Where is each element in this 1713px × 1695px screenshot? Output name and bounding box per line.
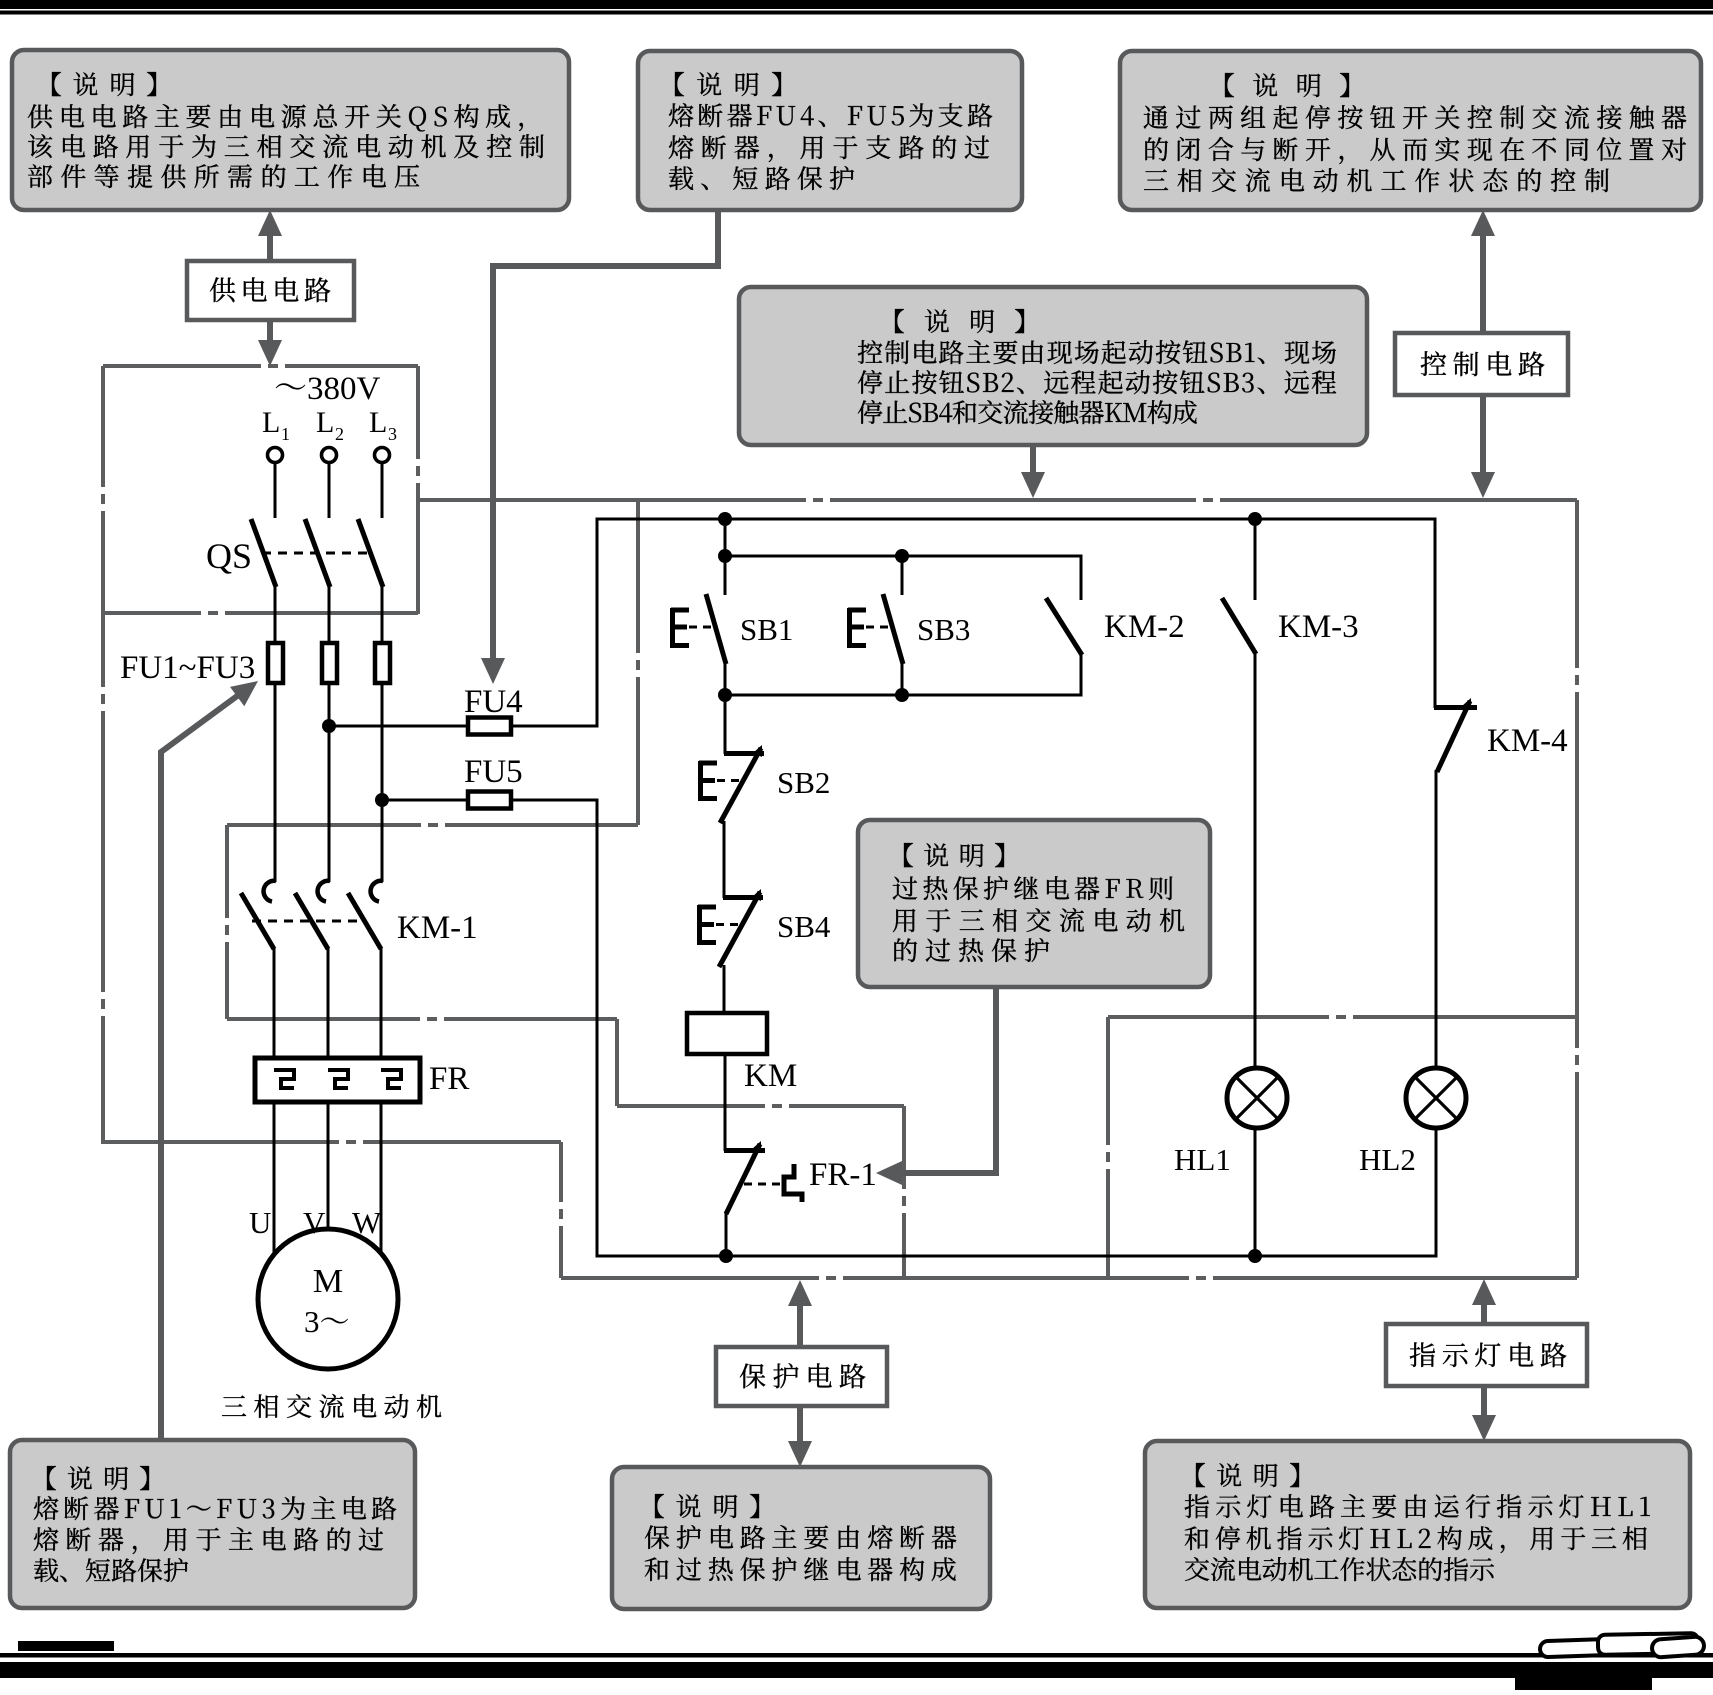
connector baohu label to note7 bbox=[797, 1406, 803, 1449]
wire KM-4 to HL2 bbox=[1435, 770, 1438, 1069]
control section top frame line bbox=[418, 498, 1577, 502]
wire SB2 to SB4 bbox=[723, 821, 726, 898]
switch QS pole2 blade bbox=[305, 519, 330, 587]
pushbutton SB1 operator bbox=[671, 608, 689, 648]
svg-text:HL1: HL1 bbox=[1174, 1142, 1231, 1177]
node parallel bus left bbox=[718, 549, 732, 563]
wire riser FU5 down to bottom control bus bbox=[596, 799, 599, 1258]
top thin rule bbox=[0, 11, 1713, 15]
wire SB1 bottom bbox=[724, 662, 727, 696]
wire FU4 to control bus riser bbox=[511, 725, 599, 728]
wire FR to motor U bbox=[273, 1102, 276, 1253]
pushbutton SB2 blade bbox=[720, 748, 761, 823]
pushbutton SB4 tick bbox=[723, 895, 763, 900]
motor M circle bbox=[258, 1229, 398, 1369]
protection section left frame line bbox=[615, 1019, 619, 1106]
note box B4 (control circuit description) bbox=[739, 287, 1367, 445]
pushbutton SB4 operator bbox=[698, 905, 716, 945]
frame line from control left to main circuit box bbox=[227, 823, 638, 827]
pushbutton SB3 link (dashed) bbox=[866, 626, 891, 629]
pushbutton SB2 tick bbox=[724, 751, 764, 756]
contactor KM-1 pole1 fixed-contact arc bbox=[264, 881, 276, 902]
node FU5 tap on L3 bbox=[375, 793, 389, 807]
lamp HL1 bbox=[1227, 1068, 1287, 1128]
power-supply section frame bottom bbox=[103, 611, 418, 615]
pushbutton SB2 link (dashed) bbox=[717, 779, 742, 782]
svg-text:KM-2: KM-2 bbox=[1104, 609, 1185, 645]
coil KM bbox=[687, 1013, 767, 1054]
connector zhishideng label to note8 bbox=[1481, 1386, 1487, 1423]
wire L3 to QS bbox=[381, 463, 384, 519]
bottom control bus bbox=[597, 1255, 1436, 1258]
main-circuit bottom frame line bbox=[101, 1140, 561, 1144]
svg-text:SB2: SB2 bbox=[777, 765, 830, 800]
wire SB3 top segment bbox=[901, 556, 904, 595]
switch QS pole3 blade bbox=[358, 519, 383, 587]
fuse FU3 bbox=[375, 643, 390, 683]
wire FU1 to KM-1 bbox=[274, 683, 277, 882]
wire KM-1 pole2 to FR bbox=[327, 947, 330, 1060]
top black banner bar bbox=[0, 0, 1713, 9]
pushbutton SB2 blade arrow tip bbox=[753, 745, 762, 757]
label box 供电电路 bbox=[187, 261, 354, 320]
label box 指示灯电路 bbox=[1386, 1324, 1587, 1386]
pushbutton SB2 operator bbox=[699, 761, 717, 801]
contactor aux KM-3 blade bbox=[1222, 598, 1256, 654]
pushbutton SB1 link (dashed) bbox=[689, 626, 714, 629]
switch QS pole1 blade bbox=[251, 519, 276, 587]
control section left partial frame line bbox=[636, 500, 640, 825]
note box B2 (FU4 FU5 description) bbox=[638, 51, 1022, 210]
wire tap to FU4 bbox=[329, 725, 470, 728]
note box B5 (FR description) bbox=[858, 820, 1210, 987]
wire SB4 to KM coil bbox=[723, 965, 726, 1014]
svg-text:QS: QS bbox=[206, 536, 252, 576]
svg-text:L: L bbox=[369, 406, 387, 439]
contactor KM-1 pole2 fixed-contact arc bbox=[318, 881, 330, 902]
wire tap to FU5 bbox=[382, 799, 470, 802]
connector kongzhi label to control frame bbox=[1480, 394, 1486, 480]
node SB3 top bbox=[895, 549, 909, 563]
fuse FU4 bbox=[468, 718, 511, 735]
contactor KM-1 pole2 blade bbox=[295, 893, 328, 949]
connector protection frame to baohu label bbox=[797, 1298, 803, 1348]
svg-text:SB3: SB3 bbox=[917, 612, 970, 647]
bottom right lower block bbox=[1515, 1678, 1652, 1690]
contact FR-1 heater symbol bbox=[784, 1164, 802, 1202]
svg-text:KM-4: KM-4 bbox=[1487, 723, 1568, 759]
connector note2 to FU4 bbox=[493, 210, 718, 666]
contact KM-4 blade arrow tip bbox=[1462, 698, 1471, 710]
wire KM-2 bottom bbox=[1080, 653, 1083, 697]
contact FR-1 blade bbox=[726, 1144, 760, 1214]
wire top bus to parallel bus bbox=[724, 519, 727, 556]
parallel branch top bus bbox=[725, 555, 1081, 558]
pushbutton SB4 blade arrow tip bbox=[752, 889, 761, 901]
svg-text:W: W bbox=[352, 1205, 382, 1240]
svg-text:FU5: FU5 bbox=[464, 754, 523, 790]
svg-text:FU1~FU3: FU1~FU3 bbox=[120, 650, 255, 686]
power-supply section frame left bbox=[101, 366, 105, 614]
svg-text:KM-3: KM-3 bbox=[1278, 609, 1359, 645]
power-supply section frame right bbox=[416, 366, 420, 614]
connector note6 to FU1-FU3 (bent arrow) bbox=[161, 688, 248, 1442]
svg-text:KM: KM bbox=[744, 1058, 797, 1094]
wire KM-3 to HL1 bbox=[1254, 652, 1257, 1069]
pushbutton SB3 blade bbox=[883, 594, 903, 664]
node L1 terminal bbox=[268, 448, 283, 463]
svg-text:V: V bbox=[303, 1205, 326, 1240]
top control bus bbox=[597, 518, 1436, 521]
contactor aux KM-2 blade bbox=[1046, 598, 1082, 655]
note box B1 (power supply description) bbox=[12, 50, 569, 210]
thermal relay FR heater element bbox=[328, 1070, 348, 1088]
svg-text:交流电动机工作状态的指示: 交流电动机工作状态的指示 bbox=[1184, 1550, 1495, 1587]
connector note1 to gongdian label bbox=[267, 228, 273, 262]
node L3 terminal bbox=[375, 448, 390, 463]
wire KM-2 top bbox=[1080, 555, 1083, 601]
wire FR-1 to bottom bus bbox=[725, 1212, 728, 1257]
svg-text:载、短路保护: 载、短路保护 bbox=[33, 1551, 189, 1588]
label box 控制电路 bbox=[1395, 333, 1568, 395]
wire HL1 to bottom bus bbox=[1254, 1128, 1257, 1256]
contact KM-4 blade bbox=[1437, 701, 1470, 772]
svg-text:KM-1: KM-1 bbox=[397, 910, 478, 946]
label box 保护电路 bbox=[716, 1347, 887, 1406]
wire FR to motor V bbox=[327, 1102, 330, 1229]
wire KM-3 top bbox=[1254, 519, 1257, 600]
note box B7 (protection description) bbox=[612, 1467, 990, 1609]
indicator section top frame line bbox=[1108, 1015, 1577, 1019]
lamp HL2 bbox=[1406, 1068, 1466, 1128]
wire KM-1 pole1 to FR bbox=[273, 947, 276, 1060]
svg-text:FU4: FU4 bbox=[464, 684, 523, 720]
contact FR-1 tick bbox=[724, 1148, 765, 1153]
wire QS pole2 to FU2 bbox=[328, 585, 331, 645]
wire KM coil to FR-1 bbox=[724, 1054, 727, 1151]
svg-text:指示灯电路: 指示灯电路 bbox=[1409, 1334, 1567, 1373]
bottom thick black bar bbox=[0, 1662, 1713, 1678]
node L2 terminal bbox=[322, 448, 337, 463]
svg-text:L: L bbox=[262, 406, 280, 439]
node FU4 tap on L2 bbox=[322, 719, 336, 733]
connector indicator frame to zhishideng label bbox=[1481, 1297, 1487, 1325]
svg-text:SB4: SB4 bbox=[777, 909, 831, 944]
parallel branch bottom bus bbox=[725, 694, 1081, 697]
wire top bus corner down to KM-4 bbox=[1434, 518, 1437, 709]
contact FR-1 blade arrow tip bbox=[752, 1141, 761, 1153]
fuse FU1 bbox=[268, 643, 283, 683]
control section right frame line bbox=[1575, 500, 1579, 1278]
protection section top frame line bbox=[617, 1104, 904, 1108]
wire FU3 to KM-1 bbox=[381, 683, 384, 882]
svg-text:的过热保护: 的过热保护 bbox=[892, 931, 1050, 968]
wire riser FU4 up to top control bus bbox=[596, 518, 599, 728]
contactor KM-1 pole1 blade bbox=[241, 893, 274, 949]
contactor KM-1 linkage (dashed) bbox=[252, 920, 360, 923]
svg-text:FR: FR bbox=[429, 1061, 469, 1097]
wire HL2 to bottom bus bbox=[1435, 1128, 1438, 1258]
wire SB3 bottom bbox=[901, 662, 904, 696]
fuse FU5 bbox=[468, 792, 511, 809]
wire KM-1 pole3 to FR bbox=[380, 947, 383, 1060]
bottom small black tab bbox=[18, 1641, 114, 1651]
svg-text:M: M bbox=[313, 1263, 343, 1300]
decorative pill doodles bottom right bbox=[1540, 1633, 1705, 1658]
pushbutton SB4 blade bbox=[719, 892, 760, 967]
pushbutton SB3 operator bbox=[848, 608, 866, 648]
thermal relay FR heater element bbox=[274, 1070, 294, 1088]
switch QS linkage (dashed) bbox=[262, 552, 370, 555]
svg-text:HL2: HL2 bbox=[1359, 1142, 1416, 1177]
connector note5 to FR-1 bbox=[892, 987, 996, 1173]
fuse FU2 bbox=[322, 643, 337, 683]
svg-text:FR-1: FR-1 bbox=[809, 1157, 877, 1193]
main-circuit left frame line bbox=[101, 614, 105, 1142]
wire QS pole1 to FU1 bbox=[274, 585, 277, 645]
svg-text:停止SB4和交流接触器KM构成: 停止SB4和交流接触器KM构成 bbox=[857, 393, 1198, 430]
connector note4 to control frame bbox=[1030, 445, 1036, 480]
thermal relay FR heater element bbox=[381, 1070, 401, 1088]
svg-text:SB1: SB1 bbox=[740, 612, 793, 647]
frame line down to protection bottom bbox=[559, 1142, 563, 1278]
wire L1 to QS bbox=[274, 463, 277, 519]
node SB1 branch on top bus bbox=[718, 512, 732, 526]
wire SB1 node to SB2 bbox=[724, 695, 727, 754]
svg-text:2: 2 bbox=[335, 424, 344, 444]
bottom thin rule bbox=[0, 1653, 1713, 1658]
connector note3 to kongzhi label bbox=[1480, 228, 1486, 334]
note box B3 (two-group buttons description) bbox=[1120, 51, 1701, 210]
wire QS pole3 to FU3 bbox=[381, 585, 384, 645]
svg-text:L: L bbox=[316, 406, 334, 439]
bottom frame line of control/protection/indicator sections bbox=[561, 1276, 1577, 1280]
svg-text:1: 1 bbox=[281, 424, 290, 444]
contact FR-1 link (dashed) bbox=[744, 1183, 783, 1186]
node SB3 bottom bbox=[895, 688, 909, 702]
wire FR to motor W bbox=[380, 1102, 383, 1254]
node HL1 on bottom bus bbox=[1248, 1249, 1262, 1263]
KM-1 section bottom frame line bbox=[227, 1017, 617, 1021]
connector gongdian label to power box bbox=[267, 320, 273, 348]
pushbutton SB1 blade bbox=[706, 594, 726, 664]
contactor KM-1 pole3 fixed-contact arc bbox=[371, 881, 383, 902]
wire FU5 to left control riser bbox=[511, 799, 599, 802]
note box B6 (FU1-FU3 description) bbox=[10, 1440, 415, 1608]
wire FU2 to KM-1 bbox=[328, 683, 331, 882]
note box B8 (indicator description) bbox=[1145, 1441, 1690, 1608]
KM-1 section left frame line bbox=[225, 825, 229, 1019]
contactor KM-1 pole3 blade bbox=[348, 893, 381, 949]
thermal relay FR box bbox=[255, 1058, 420, 1102]
protection section right frame line bbox=[902, 1106, 906, 1278]
svg-text:3: 3 bbox=[388, 424, 397, 444]
node FR-1 on bottom bus bbox=[719, 1249, 733, 1263]
node SB1 bottom bbox=[718, 688, 732, 702]
svg-text:U: U bbox=[249, 1205, 271, 1240]
wire L2 to QS bbox=[328, 463, 331, 519]
wire SB1 top bbox=[724, 556, 727, 595]
power-supply section frame top (dash-dot) bbox=[103, 364, 418, 368]
contact KM-4 tick bbox=[1434, 705, 1477, 710]
pushbutton SB4 link (dashed) bbox=[716, 923, 741, 926]
node KM-3 branch on top bus bbox=[1248, 512, 1262, 526]
svg-text:三相交流电动机: 三相交流电动机 bbox=[221, 1387, 442, 1424]
indicator section left frame line bbox=[1106, 1017, 1110, 1278]
svg-text:3～: 3～ bbox=[304, 1297, 350, 1341]
